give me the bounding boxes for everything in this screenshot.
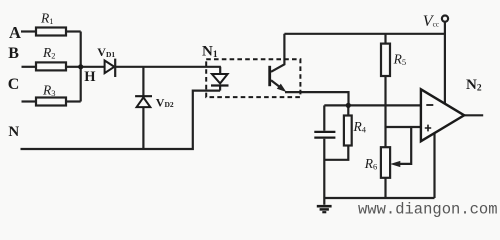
svg-text:B: B — [8, 45, 19, 62]
svg-text:N: N — [8, 124, 19, 140]
svg-text:C: C — [8, 76, 20, 93]
svg-text:www.diangon.com: www.diangon.com — [358, 201, 498, 219]
svg-text:H: H — [84, 69, 96, 85]
svg-text:A: A — [9, 23, 21, 42]
